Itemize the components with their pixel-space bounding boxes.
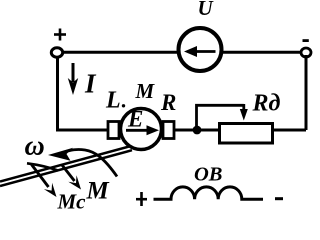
wire bottom left <box>56 129 109 132</box>
terminal + (left) <box>51 48 62 57</box>
wire top <box>60 51 303 54</box>
rheostat Rd body <box>220 124 273 144</box>
label + (top left) <box>54 29 66 41</box>
omega rotation arrow <box>27 148 117 177</box>
torque arrow M <box>62 165 81 190</box>
svg-text:I: I <box>84 69 97 99</box>
label + (field winding) <box>136 192 147 206</box>
current arrow I <box>68 63 78 95</box>
voltage source U <box>179 28 222 71</box>
wire left rail <box>56 56 59 132</box>
wire rheostat to right rail <box>272 129 306 132</box>
motor armature M/E <box>108 109 174 150</box>
label - (top right) <box>303 39 309 42</box>
junction dot <box>193 126 202 135</box>
svg-text:U: U <box>198 0 215 20</box>
svg-text:Mc: Mc <box>57 190 87 211</box>
svg-text:R: R <box>160 90 176 115</box>
wire right rail <box>305 55 308 130</box>
wire motor to rheostat <box>174 129 220 132</box>
terminal - (right) <box>301 48 311 57</box>
field winding OB <box>154 187 264 199</box>
shaft <box>0 147 132 187</box>
svg-text:OB: OB <box>194 164 222 186</box>
svg-text:ω: ω <box>25 131 45 162</box>
svg-text:M: M <box>86 178 110 205</box>
dot after L <box>122 104 125 107</box>
svg-text:L: L <box>105 88 121 114</box>
rheostat Rd tap wire <box>197 104 248 129</box>
label - (field winding) <box>275 197 283 200</box>
svg-text:Rд: Rд <box>252 91 281 117</box>
load torque arrow Mc <box>32 165 57 198</box>
svg-text:M: M <box>135 79 156 103</box>
svg-text:E: E <box>127 107 143 132</box>
